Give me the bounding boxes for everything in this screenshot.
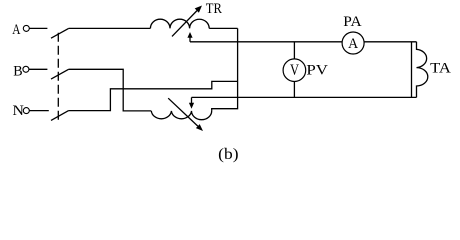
- svg-text:TR: TR: [206, 1, 222, 17]
- svg-text:PA: PA: [343, 14, 361, 30]
- svg-text:A: A: [348, 36, 358, 52]
- svg-text:V: V: [290, 62, 299, 79]
- svg-text:PV: PV: [306, 62, 328, 78]
- svg-text:(b): (b): [218, 146, 238, 163]
- svg-text:B: B: [13, 63, 22, 79]
- svg-text:N: N: [13, 103, 25, 119]
- svg-text:A: A: [12, 22, 20, 38]
- svg-text:TA: TA: [430, 60, 451, 76]
